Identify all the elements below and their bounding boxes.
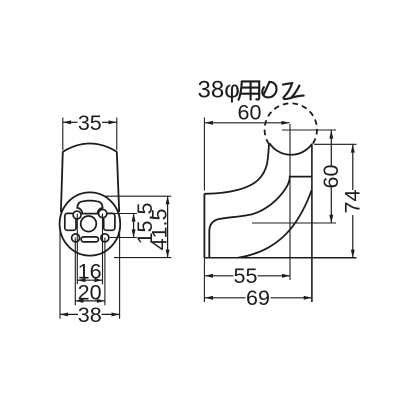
svg-text:74: 74: [341, 190, 365, 214]
svg-text:41.5: 41.5: [148, 209, 172, 251]
svg-text:35: 35: [78, 111, 102, 135]
svg-text:69: 69: [246, 286, 270, 310]
svg-text:38: 38: [78, 303, 102, 327]
svg-text:60: 60: [238, 100, 262, 124]
svg-text:60: 60: [319, 165, 343, 189]
svg-text:55: 55: [234, 264, 258, 288]
svg-text:20: 20: [78, 281, 102, 305]
svg-text:38φ: 38φ: [198, 76, 240, 103]
